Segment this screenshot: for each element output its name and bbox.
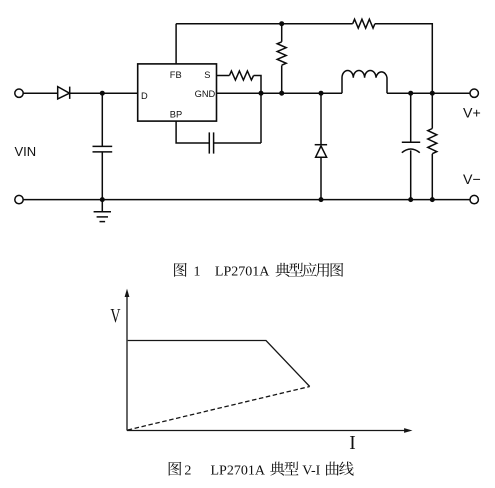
svg-text:LP2701A: LP2701A [215,265,270,280]
node K (load resistor bottom junction) [430,197,435,202]
terminal VIN- [15,195,23,203]
terminal V+ [470,89,478,97]
wire capacitor C3 to bottom rail [410,150,412,199]
op-amp U1 LP2701A body [138,64,217,121]
wire top rail right segment [375,24,432,94]
node C (top rail junction) [279,21,284,26]
svg-text:V−: V− [463,172,481,188]
wire node A down to capacitor C1 [101,93,103,146]
wire FB pin to top rail [175,24,177,64]
svg-text:FB: FB [170,70,182,80]
wire BP pin down and right [176,121,209,143]
svg-text:GND: GND [195,89,216,99]
graph V axis [126,296,128,431]
wire resistor R4 to bottom rail [431,154,433,200]
ground [94,200,111,222]
resistor R3 (S pin series) [229,71,253,80]
node B (bottom rail / ground junction) [100,197,105,202]
wire diode D1 to node A [70,92,138,94]
wire input terminal to diode D1 [23,92,58,94]
svg-text:V-I: V-I [302,463,320,478]
wire node C to resistor R2 [281,24,283,42]
wire node J to resistor R4 [431,93,433,128]
terminal VIN+ [15,89,23,97]
svg-text:S: S [204,70,210,80]
wire top rail left segment [176,23,353,25]
capacitor C1 [93,146,113,152]
terminal V- [470,195,478,203]
graph X axis [127,430,405,432]
graph X axis arrowhead [404,428,412,433]
svg-text:BP: BP [170,110,182,120]
wire GND rail to inductor [217,92,343,94]
resistor R2 (vertical, FB divider) [277,42,286,65]
wire bottom rail [23,199,470,201]
node J (load resistor top junction) [430,91,435,96]
graph solid V-I curve [128,341,310,387]
node E (S/BP/GND junction) [259,91,264,96]
svg-text:V: V [110,305,121,327]
graph V axis arrowhead [125,289,130,297]
svg-text:D: D [141,91,148,101]
svg-text:1: 1 [194,265,201,280]
caption figure 1 [174,263,343,280]
node I (output cap bottom) [408,197,413,202]
diode D1 [58,87,70,99]
node G (catch diode bottom) [319,197,324,202]
node A (input junction) [100,91,105,96]
svg-text:I: I [349,433,356,454]
caption figure 2 [169,462,354,479]
node F (catch diode top) [319,91,324,96]
graph dashed line [128,387,310,431]
wire capacitor C1 to bottom rail [101,152,103,200]
wire node H to capacitor C3 [410,93,412,142]
svg-text:LP2701A: LP2701A [211,463,266,478]
wire inductor to V+ terminal [387,92,470,94]
inductor L1 [342,70,387,93]
capacitor C3 (output) [402,142,420,152]
wire node F to diode D2 [320,93,322,145]
capacitor C2 (BP bypass) [209,132,213,153]
svg-text:2: 2 [184,463,191,478]
wire S pin to resistor R3 [217,75,230,77]
diode D2 (catch diode) [315,145,327,158]
resistor R4 (load) [428,129,437,154]
wire resistor R2 to GND rail [281,65,283,93]
wire diode D2 to bottom rail [320,157,322,199]
wire capacitor C2 to node E [214,142,261,144]
node D1j (R2/GND rail junction) [279,91,284,96]
svg-text:V+: V+ [463,105,481,121]
svg-text:VIN: VIN [15,144,37,159]
node H (output cap top) [408,91,413,96]
wire resistor R3 to node E [254,76,261,144]
resistor R1 (top horizontal) [353,19,375,28]
